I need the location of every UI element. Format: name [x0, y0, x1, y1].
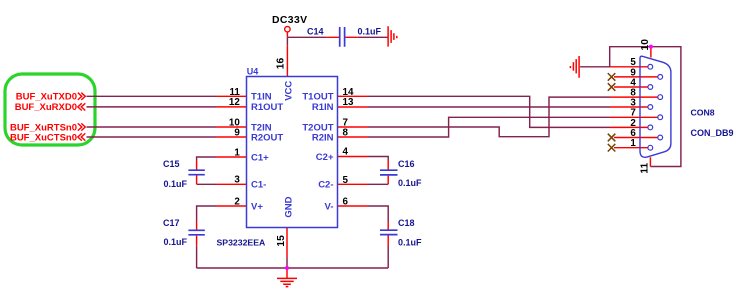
svg-text:C2+: C2+ — [316, 152, 334, 163]
svg-text:3: 3 — [234, 175, 240, 186]
svg-text:R2OUT: R2OUT — [251, 132, 283, 143]
svg-text:BUF_XuRXD0: BUF_XuRXD0 — [15, 102, 77, 113]
svg-text:T1IN: T1IN — [251, 92, 272, 103]
svg-text:0.1uF: 0.1uF — [358, 27, 382, 37]
svg-text:GND: GND — [283, 196, 294, 217]
svg-text:16: 16 — [276, 57, 287, 69]
svg-text:4: 4 — [343, 147, 349, 158]
svg-text:12: 12 — [229, 97, 240, 108]
svg-text:VCC: VCC — [283, 81, 294, 101]
svg-text:8: 8 — [343, 127, 349, 138]
svg-text:C18: C18 — [398, 218, 415, 228]
svg-text:BUF_XuCTSn0: BUF_XuCTSn0 — [10, 132, 77, 143]
svg-text:V+: V+ — [251, 201, 263, 212]
svg-text:DC33V: DC33V — [272, 15, 308, 26]
svg-text:R1IN: R1IN — [312, 102, 334, 113]
svg-text:C2-: C2- — [318, 180, 333, 191]
svg-text:R2IN: R2IN — [312, 132, 334, 143]
svg-text:CON8: CON8 — [691, 108, 715, 118]
svg-text:C14: C14 — [307, 26, 324, 36]
svg-text:SP3232EEA: SP3232EEA — [217, 237, 267, 247]
svg-text:2: 2 — [234, 196, 240, 207]
svg-text:BUF_XuTXD0: BUF_XuTXD0 — [16, 92, 77, 103]
svg-text:1: 1 — [630, 138, 636, 149]
svg-text:U4: U4 — [247, 67, 259, 77]
svg-text:0.1uF: 0.1uF — [398, 237, 422, 247]
svg-text:10: 10 — [640, 39, 651, 51]
svg-text:0.1uF: 0.1uF — [164, 237, 188, 247]
svg-text:1: 1 — [234, 147, 240, 158]
svg-text:13: 13 — [343, 97, 354, 108]
svg-text:CON_DB9: CON_DB9 — [691, 128, 734, 138]
svg-text:9: 9 — [234, 127, 240, 138]
svg-text:C17: C17 — [163, 218, 180, 228]
svg-text:C1-: C1- — [251, 180, 266, 191]
svg-text:R1OUT: R1OUT — [251, 102, 283, 113]
svg-text:11: 11 — [639, 162, 650, 173]
svg-text:15: 15 — [276, 235, 287, 247]
svg-text:V-: V- — [325, 201, 334, 212]
svg-text:5: 5 — [343, 175, 349, 186]
svg-text:6: 6 — [343, 196, 349, 207]
svg-text:C1+: C1+ — [251, 152, 269, 163]
svg-text:0.1uF: 0.1uF — [398, 178, 422, 188]
svg-text:0.1uF: 0.1uF — [164, 179, 188, 189]
svg-text:T1OUT: T1OUT — [302, 92, 333, 103]
svg-text:C16: C16 — [398, 159, 415, 169]
svg-text:C15: C15 — [163, 159, 180, 169]
